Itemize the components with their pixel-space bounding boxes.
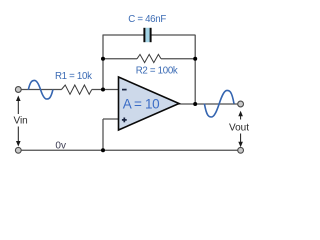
label R1 value [55,71,92,82]
op-amp non-inverting input pin marker [122,118,127,123]
wire: left vertical feedback branch [102,35,104,90]
wire: R2 branch right segment [161,58,195,60]
wire: input from Vin terminal to op-amp inverting input [21,89,61,91]
junction: inverting input node [101,88,105,92]
wire: R2 branch left segment [103,58,137,60]
svg-text:C = 46nF: C = 46nF [128,14,166,25]
wire: 0v rail [21,149,237,151]
label Vin [13,116,27,127]
wire: output from op-amp to Vout terminal [178,103,238,105]
op-amp inverting input pin marker [122,89,127,91]
input sine waveform [28,80,53,99]
op-amp A [119,77,180,130]
wire: right vertical feedback branch [194,35,196,104]
junction: R2 left node [101,57,105,61]
resistor R2 [137,54,161,62]
node Vout top terminal [238,101,244,107]
Vout arrow down [238,134,243,148]
svg-text:0v: 0v [55,140,66,151]
wire: top capacitor branch right segment [152,34,196,36]
svg-text:R1 = 10k: R1 = 10k [55,71,92,82]
Vout arrow up [238,111,243,120]
junction: output node [193,102,197,106]
svg-text:A = 10: A = 10 [123,96,160,111]
Vin arrow down [16,127,21,147]
node Vin bottom terminal [15,147,21,153]
capacitor C [143,28,151,42]
svg-text:Vin: Vin [13,116,27,127]
svg-text:R2 = 100k: R2 = 100k [136,65,178,76]
junction: 0v rail node [101,148,105,152]
svg-text:Vout: Vout [229,122,249,133]
Vin arrow up [16,96,21,115]
label 0v net [55,140,66,151]
wire: non-inverting input horizontal segment [103,118,119,120]
resistor R1 [62,85,92,94]
label Vout [229,122,249,133]
junction: R2 right node [193,57,197,61]
label R2 value [136,65,178,76]
output sine waveform [204,90,234,117]
node Vin top terminal [15,87,21,93]
node Vout bottom terminal [238,147,244,153]
wire: non-inverting input vertical down to 0v rail [102,119,104,150]
wire: top capacitor branch left segment [103,34,144,36]
label op-amp gain A = 10 [123,96,160,111]
label C value [128,14,166,25]
wire: input from R1 to op-amp inverting input [92,89,119,91]
